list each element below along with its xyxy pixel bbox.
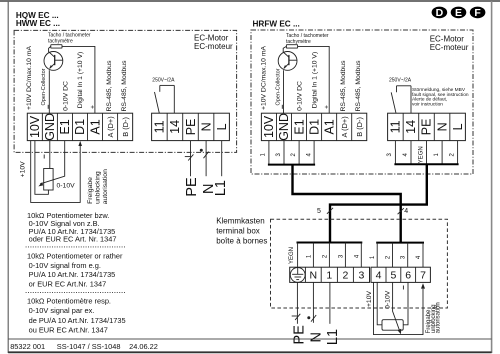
svg-text:EC-moteur: EC-moteur [194,42,233,51]
svg-text:or EUR EC Art.Nr. 1347: or EUR EC Art.Nr. 1347 [29,280,107,289]
svg-text:1: 1 [307,254,313,258]
arrow into terminal 7 [421,283,425,288]
potentiometer bottom [382,320,403,331]
wire t4 inner to pot [377,282,382,324]
svg-text:L: L [451,123,465,130]
svg-text:E: E [455,7,462,19]
svg-text:tachymétre: tachymétre [48,38,73,44]
minus mark bottom [402,286,404,290]
stub labels 3 4 YEGN 1 2 [387,146,455,163]
wire transistor emitter to GND right [283,70,285,113]
badge D [432,7,448,20]
N conductor mark bottom [307,315,316,322]
fault signal note [412,87,469,107]
connector stubs below X2 right [394,141,458,165]
wire 10V inner to pot bottom [35,141,49,195]
svg-text:N: N [435,122,449,131]
wire N bottom [312,282,314,322]
badge F [470,7,486,20]
svg-text:250V~/2A: 250V~/2A [152,77,175,83]
minus mark at pot [43,155,45,159]
svg-text:Freigabe: Freigabe [87,177,94,204]
svg-text:PE: PE [420,119,434,136]
svg-text:A1: A1 [88,119,102,134]
svg-text:7: 7 [420,270,426,282]
cable marker 5 [317,208,333,215]
svg-text:L1: L1 [325,329,341,345]
svg-text:RS-485, Modbus: RS-485, Modbus [355,60,362,112]
stubs above left group [297,243,363,268]
svg-text:L1: L1 [213,180,229,196]
Klemmkasten label [216,217,267,246]
wire 10V outer to D1 enable loop [31,141,80,203]
pin function labels above X1 left [26,46,128,112]
wire L1 bottom [329,282,331,323]
svg-text:A (D+): A (D+) [106,116,115,137]
svg-text:HWW EC ...: HWW EC ... [16,19,60,28]
svg-text:autorisation: autorisation [102,169,109,204]
svg-text:A (D+): A (D+) [340,116,349,137]
terminal block X1 left (10V GND E1 D1 A1 A(D+) B(D-)) [27,113,132,141]
wiper arrow bottom [398,329,402,335]
svg-text:2: 2 [386,255,392,259]
title HQW/HWW [16,11,60,28]
relay contact 250V right [389,78,412,114]
svg-text:2: 2 [450,152,456,156]
arrow into D1 [78,141,82,146]
PE conductor mark left [185,154,194,160]
svg-text:14: 14 [404,120,418,134]
svg-text:RS-485, Modbus: RS-485, Modbus [121,60,128,112]
svg-text:10V: 10V [262,115,276,138]
svg-text:ou EUR EC Art.Nr. 1347: ou EUR EC Art.Nr. 1347 [29,325,108,334]
stub labels 1 2 3 4 [370,255,422,259]
terminal block X1 right [261,113,366,141]
signal cable (4-wire) [293,165,401,243]
svg-text:RS-485, Modbus: RS-485, Modbus [106,60,113,112]
wire N left down [205,141,207,177]
svg-text:Digital In 1 (+10 V): Digital In 1 (+10 V) [311,52,318,108]
tacho transistor circle right [278,52,297,71]
PE conductor mark bottom [292,314,301,320]
svg-text:1: 1 [370,255,376,259]
dotted rule 1 [26,246,125,248]
svg-text:E1: E1 [292,119,306,134]
wire E1 to wiper [40,141,65,184]
svg-text:0-10V: 0-10V [57,183,76,190]
svg-text:EC-Motor: EC-Motor [430,34,465,43]
label Freigabe bottom [426,302,442,333]
svg-text:4: 4 [403,152,409,156]
svg-text:Open-Collector: Open-Collector [41,68,47,105]
wire resistor to transistor right [283,46,286,52]
svg-text:+10V: +10V [366,291,373,308]
svg-text:4: 4 [306,152,312,156]
svg-text:unblocking: unblocking [94,171,101,204]
svg-text:D: D [436,7,444,19]
svg-text:PU/A 10 Art.Nr. 1734/1735: PU/A 10 Art.Nr. 1734/1735 [29,270,116,279]
svg-text:3: 3 [339,254,345,258]
svg-text:YEGN: YEGN [289,247,295,264]
svg-text:0-10V signal par ex.: 0-10V signal par ex. [29,306,95,315]
wire t4 outer to t7 enable loop [374,282,424,334]
svg-text:3: 3 [401,255,407,259]
svg-text:4: 4 [416,255,422,259]
terminal strip left group [290,267,370,282]
svg-text:3: 3 [387,152,393,156]
wire t5 to wiper [393,282,400,331]
svg-text:GND: GND [277,113,291,141]
svg-text:N: N [199,122,213,131]
svg-text:N: N [309,332,325,342]
svg-text:250V~/2A: 250V~/2A [389,78,412,84]
svg-text:YEGN: YEGN [419,146,425,163]
svg-text:10kΩ Potentiomètre resp.: 10kΩ Potentiomètre resp. [27,297,111,306]
svg-text:L: L [215,123,229,130]
svg-text:4: 4 [404,208,408,215]
svg-text:terminal box: terminal box [216,226,260,235]
svg-text:2: 2 [323,254,329,258]
svg-text:5: 5 [390,270,396,282]
relay contact 250V left [152,77,175,113]
svg-text:+10V DC/max.10 mA: +10V DC/max.10 mA [260,46,267,110]
svg-text:10kΩ Potentiometer or rather: 10kΩ Potentiometer or rather [27,252,123,261]
svg-text:14: 14 [168,120,182,134]
wire transistor emitter to GND [48,70,50,113]
svg-text:11: 11 [153,120,167,133]
wire resistor to A1 right [298,46,330,113]
earth terminal [290,268,305,283]
svg-text:+10V DC/max.10 mA: +10V DC/max.10 mA [26,46,33,110]
svg-text:0-10V signal from e.g.: 0-10V signal from e.g. [29,261,101,270]
note potentiometer german [27,211,117,244]
N conductor mark left [200,149,209,158]
svg-text:1: 1 [261,152,267,156]
svg-text:B (D-): B (D-) [121,117,130,137]
label Freigabe left [87,169,109,204]
badge E [451,7,467,20]
tacho transistor circle left [44,52,63,71]
svg-text:0-10V: 0-10V [384,290,391,309]
wiper arrow [38,182,43,186]
power cable (5-wire) [330,164,427,242]
note potentiometer french [27,297,126,335]
svg-text:4: 4 [376,270,382,282]
terminal strip right group [371,267,430,282]
svg-text:HRFW EC ...: HRFW EC ... [253,20,300,29]
svg-text:autorisation: autorisation [436,302,442,333]
svg-text:de PU/A 10 Art.Nr. 1734/1735: de PU/A 10 Art.Nr. 1734/1735 [29,316,126,325]
stub labels YEGN 1 2 3 4 [289,247,361,264]
svg-text:11: 11 [389,120,403,133]
EC-Motor dashed enclosure right [251,30,473,174]
wire GND to pot top [49,141,51,169]
svg-text:Open-Collector: Open-Collector [275,68,281,105]
wire resistor to A1 [62,46,95,113]
svg-text:6: 6 [405,270,411,282]
svg-text:D1: D1 [307,119,321,135]
svg-text:voir instruction: voir instruction [412,101,443,107]
svg-text:10V: 10V [28,115,42,138]
potentiometer left [44,169,53,191]
stubs above right group [376,243,424,268]
wire PE left down [190,141,192,177]
EC-Motor label right [430,34,469,52]
svg-text:boîte à bornes: boîte à bornes [216,236,267,245]
svg-text:PE: PE [184,119,198,136]
tacho resistor left [51,45,62,48]
connector stubs below X1 right [268,141,315,165]
wire t6 to pot right [403,282,408,324]
svg-text:24.06.22: 24.06.22 [129,342,158,351]
svg-text:Digital In 1 (+10 V): Digital In 1 (+10 V) [77,52,84,108]
svg-text:+10V: +10V [20,161,27,178]
svg-text:2: 2 [291,152,297,156]
terminal block X2 left (11 14 PE N L) [152,113,230,140]
tacho resistor right [286,45,297,48]
svg-text:PE: PE [184,177,200,197]
svg-text:D1: D1 [73,119,87,135]
svg-text:A1: A1 [322,119,336,134]
svg-text:RS-485, Modbus: RS-485, Modbus [340,60,347,112]
svg-text:tachymétre: tachymétre [286,39,311,45]
wire L left down [221,141,223,177]
EC-Motor dashed enclosure left [14,30,237,152]
svg-text:E1: E1 [58,119,72,134]
svg-text:Klemmkasten: Klemmkasten [216,217,264,226]
terminal box dashed enclosure [271,219,448,308]
svg-text:F: F [474,7,481,19]
svg-text:GND: GND [43,113,57,141]
svg-text:0-10V DC: 0-10V DC [63,81,70,111]
pin function labels above X1 right [260,46,362,112]
svg-text:85322 001: 85322 001 [10,342,45,351]
footer [10,342,158,351]
dotted rule 2 [26,291,125,293]
svg-text:1: 1 [434,152,440,156]
svg-text:3: 3 [358,270,364,282]
svg-text:oder EUR EC Art. Nr. 1347: oder EUR EC Art. Nr. 1347 [29,235,117,244]
svg-text:4: 4 [355,254,361,258]
svg-text:2: 2 [342,270,348,282]
svg-text:EC-moteur: EC-moteur [430,43,469,52]
svg-text:3: 3 [276,152,282,156]
svg-text:PE: PE [292,325,308,345]
EC-Motor label left [194,33,233,50]
svg-text:B (D-): B (D-) [355,117,364,137]
svg-text:N: N [310,270,318,282]
wire resistor to transistor [49,46,51,52]
svg-text:SS-1047 / SS-1048: SS-1047 / SS-1048 [57,342,121,351]
terminal block X2 right [388,113,466,140]
tacho label left [48,33,91,45]
tacho label right [286,33,329,45]
svg-text:0-10V DC: 0-10V DC [297,81,304,111]
stub labels 1 3 2 4 [261,152,313,156]
svg-text:5: 5 [317,208,321,215]
svg-text:1: 1 [326,270,332,282]
note potentiometer english [27,252,123,289]
cable marker 4 [398,208,409,215]
wire earth to PE [296,282,298,324]
